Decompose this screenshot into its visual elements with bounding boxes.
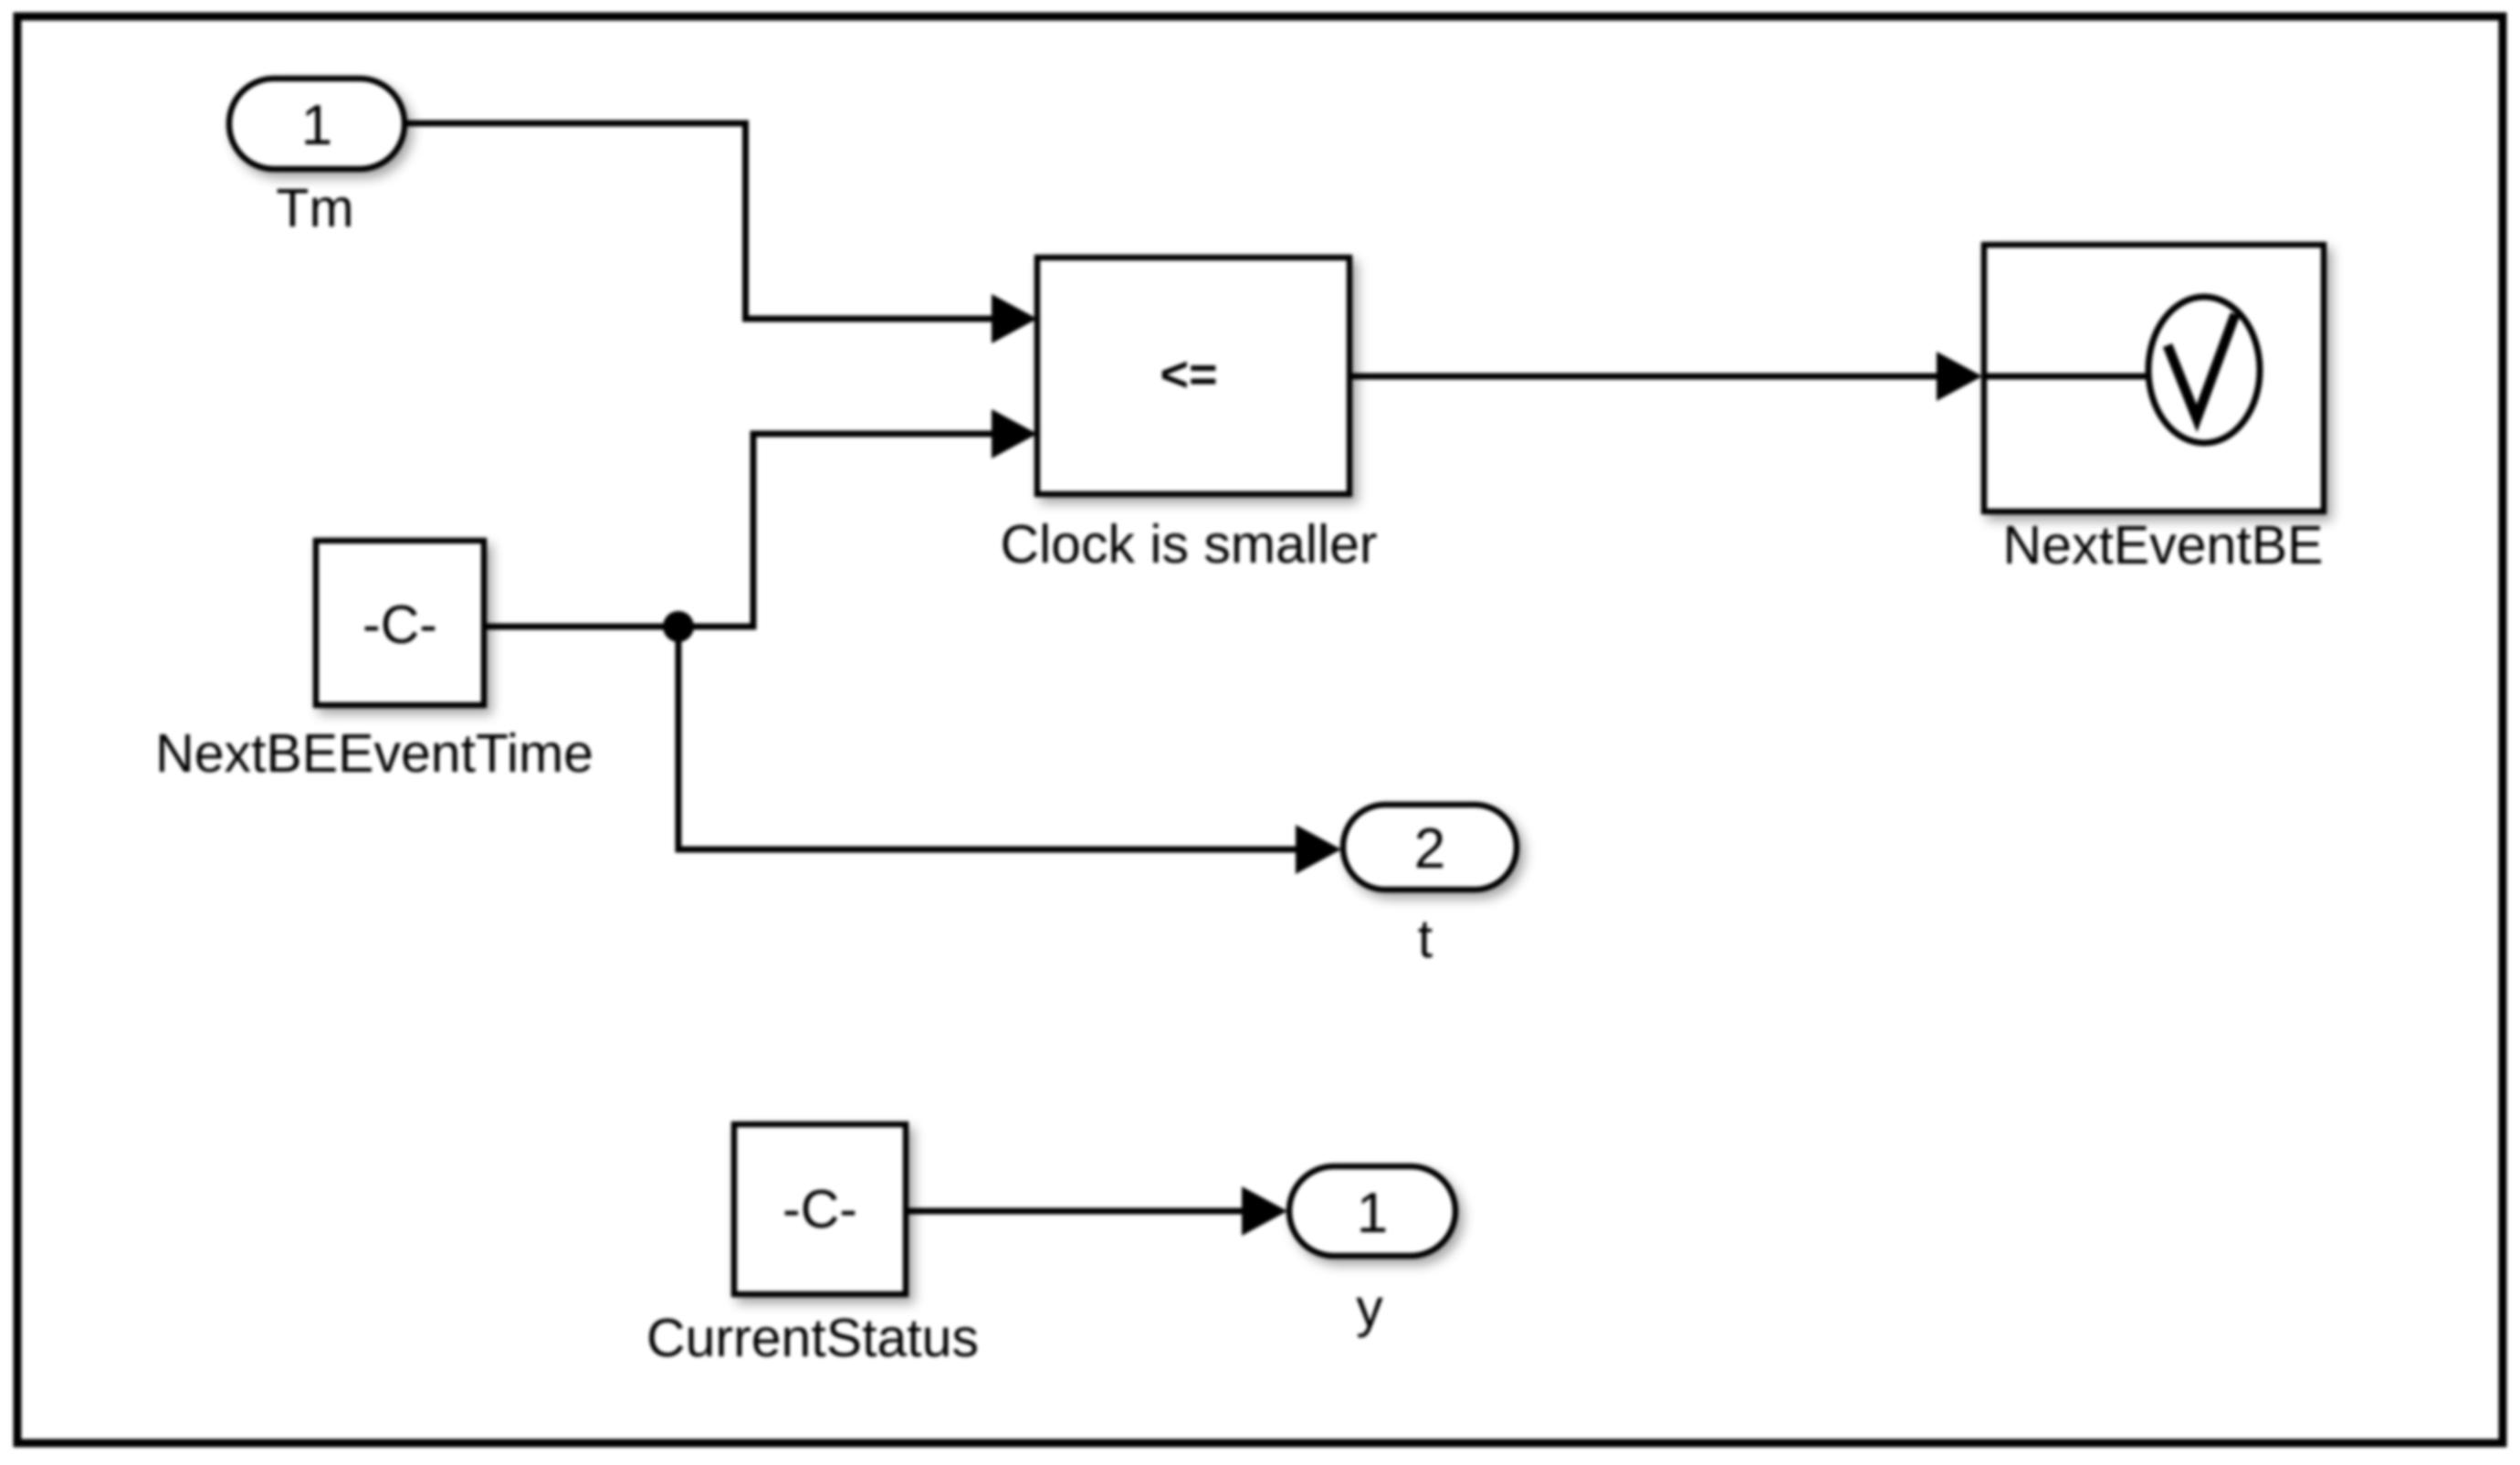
svg-text:NextBEEventTime: NextBEEventTime: [155, 723, 593, 784]
svg-text:t: t: [1418, 909, 1433, 969]
svg-text:Clock is smaller: Clock is smaller: [1000, 514, 1377, 574]
svg-text:CurrentStatus: CurrentStatus: [646, 1308, 979, 1368]
svg-text:-C-: -C-: [362, 595, 437, 655]
svg-text:y: y: [1356, 1278, 1383, 1338]
svg-text:1: 1: [301, 94, 332, 157]
svg-text:1: 1: [1357, 1182, 1388, 1245]
svg-text:Tm: Tm: [276, 178, 353, 238]
svg-text:-C-: -C-: [782, 1179, 857, 1239]
svg-text:NextEventBE: NextEventBE: [2003, 515, 2324, 575]
svg-text:<=: <=: [1160, 347, 1217, 402]
svg-text:2: 2: [1414, 817, 1445, 880]
